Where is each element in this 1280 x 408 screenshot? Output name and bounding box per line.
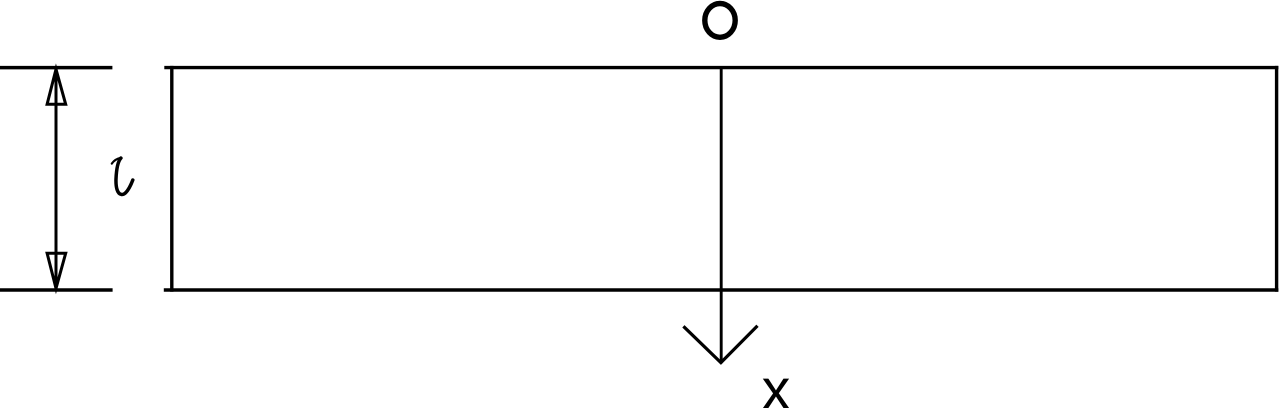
axis arrowhead V — [683, 326, 757, 363]
top arrowhead (open triangle, up) — [47, 69, 66, 104]
slab right edge — [1275, 66, 1278, 292]
bottom arrowhead (open triangle, down) — [47, 253, 66, 288]
dimension arrow shaft — [55, 69, 58, 289]
slab top edge — [164, 66, 1278, 69]
slab bottom edge — [164, 288, 1279, 291]
axis line through O — [720, 68, 723, 364]
label x (axis name) — [762, 362, 791, 408]
wire bottom extension line — [0, 288, 113, 292]
label ell (script l) — [112, 158, 133, 195]
label O (origin) — [705, 4, 735, 38]
slab left edge — [170, 66, 173, 292]
wire top extension line — [0, 66, 112, 70]
